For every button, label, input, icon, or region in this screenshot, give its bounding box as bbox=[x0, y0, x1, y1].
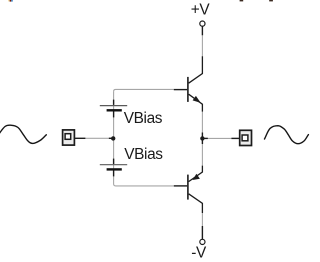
svg-text:-V: -V bbox=[191, 245, 207, 262]
svg-text:+V: +V bbox=[191, 1, 211, 18]
svg-text:VBias: VBias bbox=[124, 146, 163, 163]
svg-text:VBias: VBias bbox=[124, 110, 163, 127]
